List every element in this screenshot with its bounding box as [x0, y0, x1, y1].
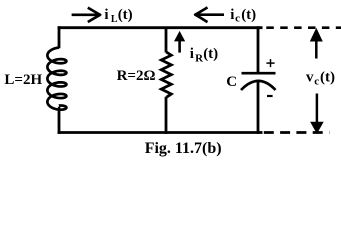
current arrow iR	[178, 41, 181, 53]
dashed line top right	[266, 26, 341, 29]
wire left top lead	[58, 26, 61, 48]
current arrow iL shaft	[72, 14, 98, 17]
svg-text:R=2Ω: R=2Ω	[117, 68, 156, 84]
svg-text:iR(t): iR(t)	[190, 46, 219, 65]
svg-text:vc(t): vc(t)	[306, 69, 335, 87]
current arrow iL head	[88, 8, 100, 22]
svg-text:ic(t): ic(t)	[230, 7, 256, 25]
svg-text:iL(t): iL(t)	[104, 7, 132, 25]
wire right bottom lead	[257, 82, 260, 134]
wire bottom	[58, 131, 263, 134]
dashed line bottom right	[264, 131, 330, 134]
inductor L coil	[47, 48, 66, 110]
voltage arrow vc up	[315, 40, 318, 58]
wire middle bottom lead	[165, 97, 168, 134]
svg-text:C: C	[226, 74, 237, 90]
capacitor minus sign	[267, 95, 273, 97]
wire right top lead	[257, 26, 260, 73]
wire middle top lead	[165, 28, 168, 53]
resistor R zigzag	[161, 52, 171, 97]
voltage arrow vc down	[316, 94, 319, 123]
current arrow ic shaft	[198, 13, 224, 16]
wire left bottom lead	[58, 106, 61, 111]
capacitor C curved plate	[241, 81, 276, 90]
capacitor C top plate	[242, 72, 276, 75]
current arrow ic head	[195, 7, 207, 22]
capacitor plus sign	[266, 62, 274, 64]
svg-text:Fig. 11.7(b): Fig. 11.7(b)	[145, 140, 222, 157]
wire top	[58, 26, 263, 29]
svg-text:L=2H: L=2H	[4, 72, 42, 88]
